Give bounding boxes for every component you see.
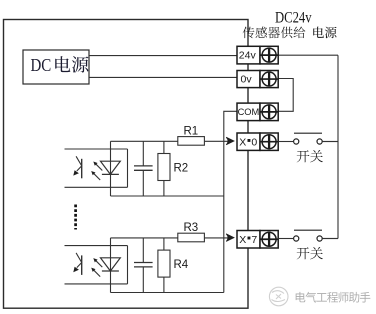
svg-text:R4: R4: [174, 259, 189, 271]
svg-text:R2: R2: [174, 163, 189, 175]
svg-text:DC24v: DC24v: [275, 9, 312, 26]
svg-text:7: 7: [251, 234, 257, 246]
svg-text:24v: 24v: [239, 50, 257, 62]
svg-text:COM: COM: [238, 107, 260, 117]
svg-text:DC: DC: [31, 55, 52, 75]
svg-text:R3: R3: [184, 222, 199, 234]
svg-text:0: 0: [251, 136, 257, 148]
svg-text:X: X: [239, 136, 246, 148]
svg-text:R1: R1: [184, 125, 199, 137]
svg-text:0v: 0v: [241, 74, 253, 86]
svg-text:X: X: [239, 234, 246, 246]
